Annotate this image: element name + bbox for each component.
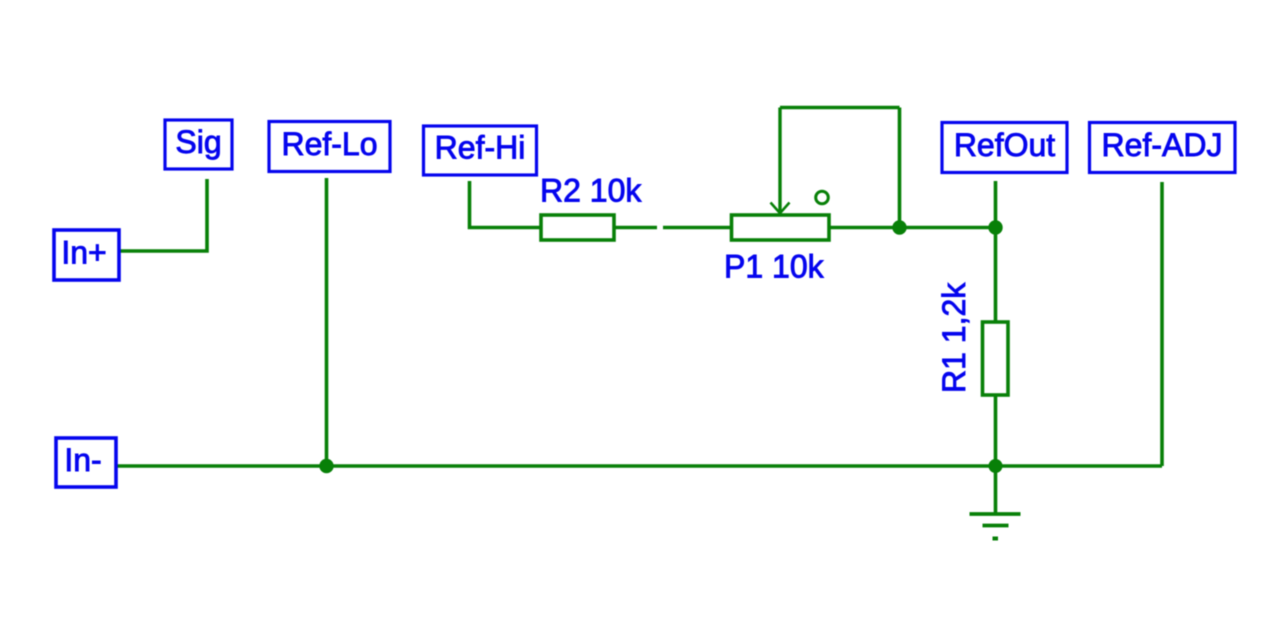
svg-text:In-: In- — [64, 442, 101, 478]
node Ref-ADJ — [1090, 123, 1236, 173]
wire R1 to bus — [994, 395, 998, 466]
wire R2 to gap — [614, 226, 657, 230]
wiper arrowhead — [771, 203, 790, 214]
wire Ref-ADJ vertical — [1160, 182, 1164, 466]
junction Ref-Lo bus — [319, 459, 333, 473]
ground — [970, 466, 1021, 541]
node RefOut — [942, 123, 1067, 173]
wire P1 to RefOut node — [829, 226, 996, 230]
wire RefOut stub — [994, 181, 998, 228]
wire Ref-Hi to R2 — [470, 181, 542, 228]
wire Sig to In+ — [119, 179, 207, 251]
svg-text:R2 10k: R2 10k — [540, 173, 642, 209]
node Sig — [165, 120, 232, 169]
node Ref-Hi — [424, 126, 537, 175]
wiper right wire down — [898, 108, 902, 228]
circle marker at P1 — [816, 191, 829, 204]
resistor R2 — [541, 215, 614, 240]
svg-text:Ref-Hi: Ref-Hi — [435, 130, 526, 166]
bottom bus wire — [116, 464, 1162, 468]
potentiometer P1 — [732, 215, 830, 240]
svg-text:Sig: Sig — [175, 124, 221, 160]
junction ground node — [989, 459, 1003, 473]
wiper arrow shaft — [778, 108, 781, 212]
wire node to R1 — [994, 228, 998, 323]
resistor R1 — [983, 322, 1009, 395]
node Ref-Lo — [269, 122, 390, 172]
wire Ref-Lo vertical — [325, 178, 329, 466]
svg-text:P1 10k: P1 10k — [724, 249, 825, 285]
junction RefOut node — [988, 220, 1002, 234]
node In- — [56, 438, 116, 487]
svg-text:R1 1,2k: R1 1,2k — [936, 282, 972, 393]
junction wiper bus — [892, 220, 906, 234]
svg-text:RefOut: RefOut — [954, 127, 1055, 163]
node In+ — [54, 230, 119, 280]
svg-text:Ref-Lo: Ref-Lo — [281, 126, 377, 162]
svg-text:Ref-ADJ: Ref-ADJ — [1102, 127, 1223, 163]
wiper top wire — [780, 106, 900, 110]
wire gap to P1 — [663, 226, 732, 230]
svg-text:In+: In+ — [61, 235, 106, 271]
